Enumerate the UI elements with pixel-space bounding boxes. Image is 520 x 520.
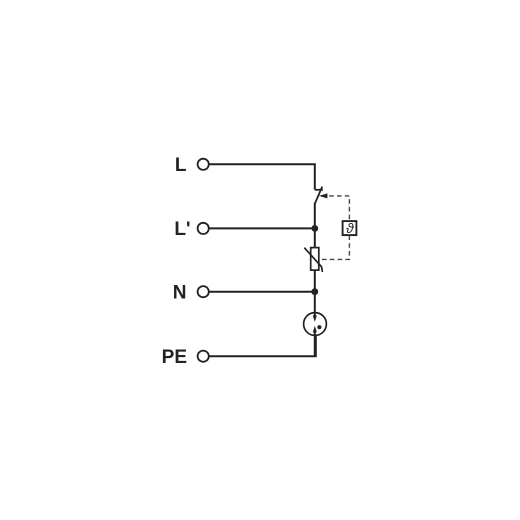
- terminal L: [198, 159, 209, 170]
- wire L to trunk: [209, 164, 314, 189]
- spark gap lower electrode wire: [314, 332, 316, 356]
- junction at N: [311, 288, 318, 295]
- spark gap gas dot: [317, 325, 321, 329]
- wire N to trunk: [209, 291, 314, 293]
- svg-text:N: N: [173, 283, 187, 304]
- svg-text:ϑ: ϑ: [346, 220, 355, 236]
- terminal N: [198, 286, 209, 297]
- varistor RV1 diagonal: [304, 248, 322, 272]
- thermal sensor box: [343, 221, 357, 235]
- spark gap upper electrode wire: [314, 313, 316, 316]
- varistor RV1 body: [311, 248, 319, 271]
- switch actuator arrow: [319, 193, 328, 198]
- wire varistor to N junction: [314, 270, 316, 313]
- junction at L': [311, 225, 318, 232]
- switch F1 fixed contact tick: [315, 189, 323, 191]
- dashed link sensor to varistor: [321, 235, 350, 259]
- wire L' to trunk: [209, 227, 314, 229]
- svg-text:PE: PE: [162, 347, 187, 368]
- switch F1 blade: [315, 187, 322, 204]
- svg-text:L': L': [174, 219, 190, 240]
- spark gap F2 circle: [304, 313, 327, 336]
- svg-text:L: L: [175, 155, 187, 176]
- terminal L': [198, 223, 209, 234]
- wire PE to trunk: [209, 335, 315, 356]
- wire trunk switch to varistor: [314, 203, 316, 248]
- spark gap lower arrow: [313, 326, 317, 333]
- spark gap upper arrow: [313, 315, 317, 322]
- dashed link arrow to thermal sensor: [329, 196, 349, 221]
- terminal PE: [198, 351, 209, 362]
